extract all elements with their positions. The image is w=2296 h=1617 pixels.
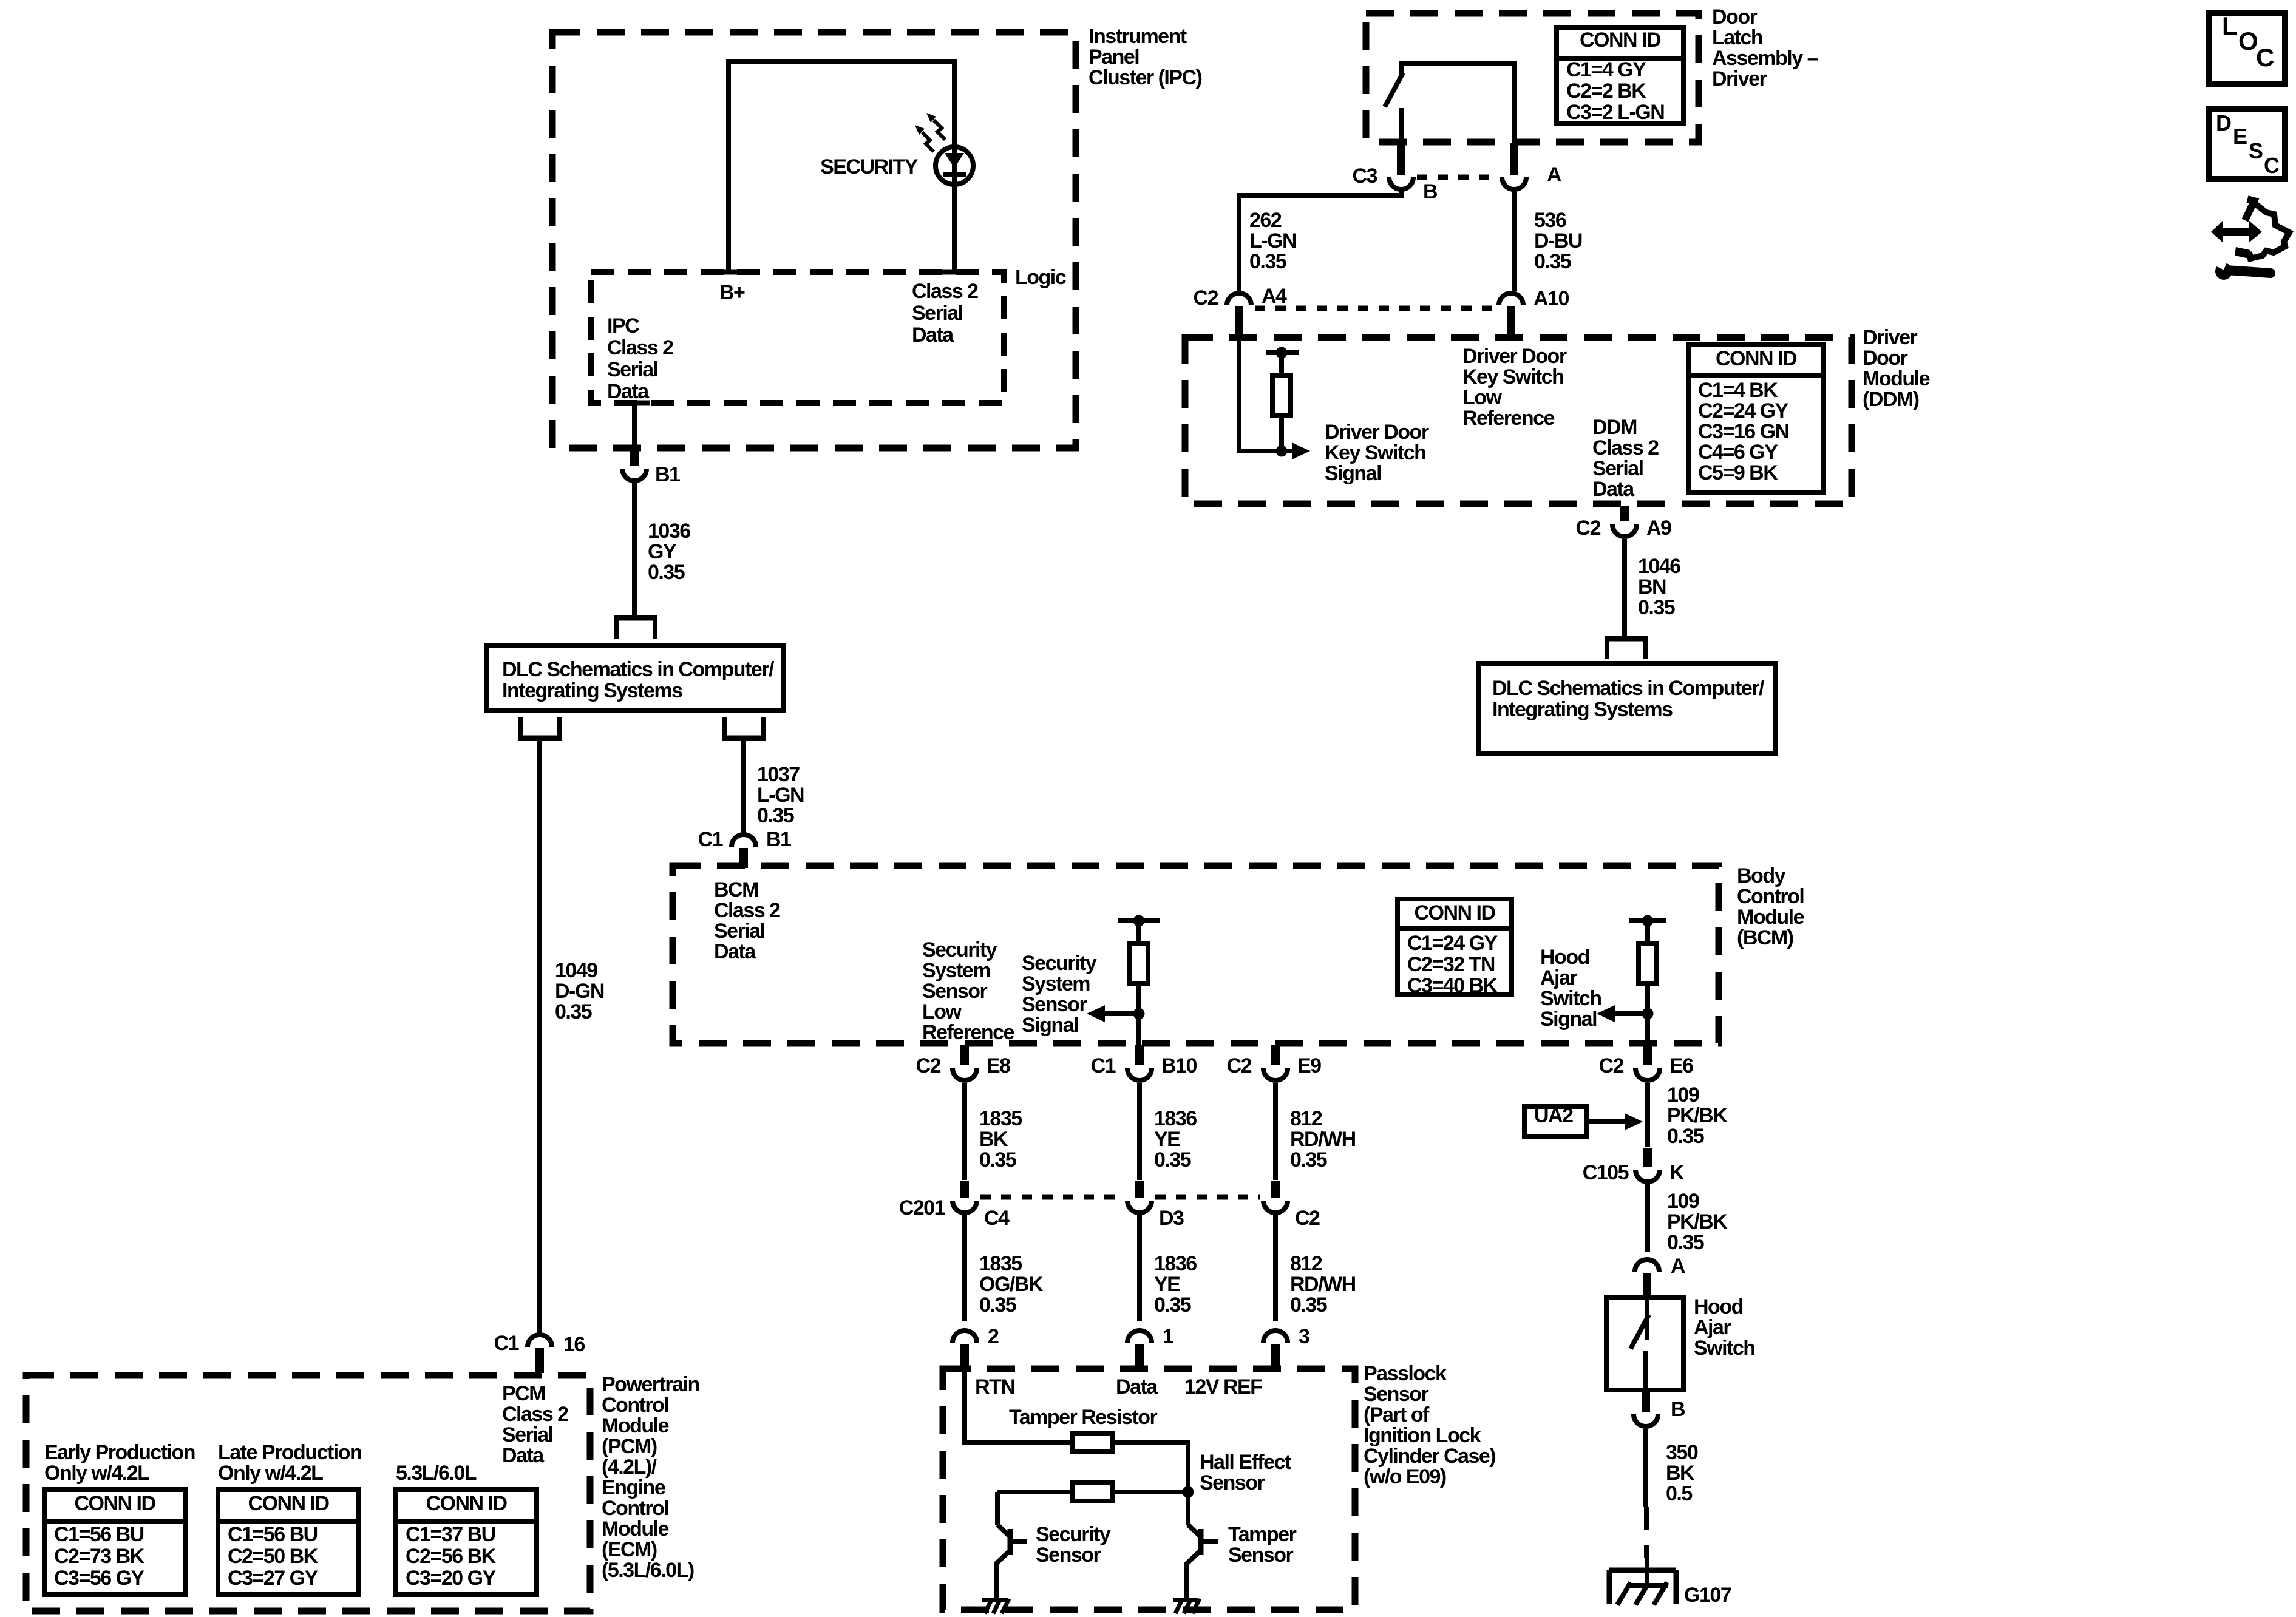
ground G107 <box>1609 1558 1731 1607</box>
connector C2 A4 at DDM <box>1194 285 1288 339</box>
svg-text:Reference: Reference <box>922 1021 1014 1044</box>
pin B+ on logic block <box>713 272 745 304</box>
svg-text:0.35: 0.35 <box>648 561 685 584</box>
svg-text:C2=32 TN: C2=32 TN <box>1407 953 1495 976</box>
BCM internal pull-up resistor for hood signal <box>1629 915 1666 1046</box>
security sensor transistor <box>996 1525 1027 1599</box>
svg-text:Sensor: Sensor <box>1036 1544 1101 1567</box>
wire 812 RD/WH 0.35 lower <box>1275 1215 1356 1321</box>
svg-text:0.35: 0.35 <box>1667 1125 1704 1148</box>
svg-text:Key Switch: Key Switch <box>1462 365 1563 388</box>
svg-text:1036: 1036 <box>648 520 690 543</box>
svg-text:Module: Module <box>602 1414 669 1437</box>
svg-text:RD/WH: RD/WH <box>1290 1128 1356 1151</box>
connector C1 B1 at BCM <box>698 828 792 868</box>
svg-text:Data: Data <box>1116 1375 1158 1398</box>
svg-text:C1: C1 <box>1091 1054 1116 1077</box>
svg-text:Tamper Resistor: Tamper Resistor <box>1009 1406 1158 1429</box>
svg-text:Engine: Engine <box>602 1476 665 1499</box>
svg-text:B10: B10 <box>1161 1054 1197 1077</box>
svg-text:Sensor: Sensor <box>1022 993 1087 1016</box>
wire RTN to tamper resistor <box>965 1371 1073 1443</box>
svg-text:0.35: 0.35 <box>979 1293 1016 1317</box>
DDM class 2 serial data label <box>1592 416 1659 501</box>
security sensor ground <box>982 1599 1009 1613</box>
svg-text:K: K <box>1669 1161 1685 1184</box>
IPC Class 2 Serial Data label <box>607 314 673 403</box>
svg-text:Data: Data <box>714 940 756 963</box>
connector C1 B10 at BCM <box>1091 1045 1197 1080</box>
DDM CONN ID table <box>1688 345 1824 493</box>
UA2 fuse callout box <box>1524 1104 1643 1137</box>
tamper resistor R1 <box>1073 1434 1113 1452</box>
svg-text:0.35: 0.35 <box>1290 1148 1327 1171</box>
svg-text:1836: 1836 <box>1154 1252 1197 1275</box>
svg-text:Class 2: Class 2 <box>607 336 673 359</box>
svg-text:G107: G107 <box>1684 1584 1731 1607</box>
off-page bracket from DLC right leg <box>722 717 766 738</box>
svg-text:O: O <box>2238 27 2257 55</box>
svg-text:IPC: IPC <box>607 314 639 337</box>
svg-text:C2=2 BK: C2=2 BK <box>1566 80 1646 103</box>
wire security sensor drop <box>995 1492 1000 1525</box>
svg-text:109: 109 <box>1667 1083 1699 1107</box>
wire 109 PK/BK 0.35 upper <box>1648 1083 1728 1148</box>
svg-text:Door: Door <box>1712 5 1758 29</box>
svg-text:C2: C2 <box>1295 1207 1320 1230</box>
wire security branch <box>997 1490 1073 1494</box>
connector C3 B at door latch <box>1353 143 1438 203</box>
DESC button <box>2209 109 2285 179</box>
off-page bracket to DLC (left) <box>614 618 657 639</box>
connector pin 2 at passlock sensor <box>953 1325 999 1371</box>
svg-text:E9: E9 <box>1297 1054 1321 1077</box>
off-page bracket to DLC (right) <box>1605 639 1648 659</box>
svg-text:Hall Effect: Hall Effect <box>1200 1451 1291 1474</box>
svg-text:DLC Schematics in Computer/: DLC Schematics in Computer/ <box>502 658 775 681</box>
svg-text:0.35: 0.35 <box>1667 1231 1704 1254</box>
svg-text:C2: C2 <box>1227 1054 1252 1077</box>
svg-text:C3=27 GY: C3=27 GY <box>228 1567 319 1590</box>
svg-text:C5=9 BK: C5=9 BK <box>1698 461 1778 484</box>
svg-text:0.35: 0.35 <box>1638 596 1675 619</box>
BCM hood ajar switch signal label <box>1540 946 1601 1031</box>
wire LED cathode to logic Class 2 <box>952 185 957 272</box>
svg-text:0.5: 0.5 <box>1666 1482 1692 1505</box>
svg-text:C3=16 GN: C3=16 GN <box>1698 420 1789 443</box>
late production label <box>218 1441 361 1485</box>
tamper sensor transistor <box>1187 1525 1218 1599</box>
svg-text:PK/BK: PK/BK <box>1667 1210 1728 1233</box>
DDM driver door key switch low reference label <box>1462 345 1567 430</box>
svg-text:(ECM): (ECM) <box>602 1538 657 1561</box>
svg-text:350: 350 <box>1666 1441 1698 1464</box>
svg-text:OG/BK: OG/BK <box>979 1273 1044 1296</box>
svg-text:0.35: 0.35 <box>1154 1293 1191 1317</box>
svg-text:A: A <box>1547 163 1561 186</box>
connector pin 1 at passlock sensor <box>1127 1325 1173 1371</box>
svg-text:C3=2 L-GN: C3=2 L-GN <box>1566 101 1664 124</box>
svg-text:Control: Control <box>602 1394 668 1417</box>
pin Class 2 Serial Data on logic block <box>912 272 978 347</box>
svg-text:262: 262 <box>1249 209 1282 232</box>
wire 1835 BK 0.35 <box>965 1083 1022 1180</box>
svg-text:L-GN: L-GN <box>757 784 804 807</box>
svg-text:B: B <box>1671 1398 1685 1421</box>
instrument panel cluster (IPC) module box <box>552 25 1202 448</box>
svg-text:D: D <box>2216 110 2231 135</box>
svg-text:Logic: Logic <box>1015 266 1066 289</box>
svg-text:C3=56 GY: C3=56 GY <box>54 1567 145 1590</box>
connector C2 E6 at BCM <box>1599 1045 1694 1080</box>
passlock sensor box <box>943 1362 1495 1610</box>
svg-text:Class 2: Class 2 <box>912 280 978 303</box>
svg-text:Serial: Serial <box>912 302 963 325</box>
svg-text:Control: Control <box>602 1497 668 1520</box>
svg-text:CONN ID: CONN ID <box>248 1492 329 1515</box>
svg-text:1046: 1046 <box>1638 555 1680 578</box>
svg-text:1037: 1037 <box>757 763 800 786</box>
svg-text:(PCM): (PCM) <box>602 1435 657 1458</box>
svg-text:0.35: 0.35 <box>1534 250 1571 273</box>
connector C201 D3 <box>1127 1181 1184 1230</box>
svg-text:D3: D3 <box>1159 1207 1184 1230</box>
svg-text:Sensor: Sensor <box>1364 1383 1429 1406</box>
svg-text:D-BU: D-BU <box>1534 229 1582 253</box>
tamper sensor label <box>1228 1523 1297 1567</box>
svg-text:E: E <box>2233 124 2247 149</box>
svg-text:C: C <box>2264 153 2280 178</box>
connector A at hood ajar switch <box>1635 1255 1685 1300</box>
svg-text:Body: Body <box>1737 864 1786 887</box>
svg-text:Passlock: Passlock <box>1364 1362 1447 1385</box>
BCM hood signal arrow <box>1597 1005 1654 1022</box>
svg-text:1: 1 <box>1163 1325 1173 1348</box>
junction node hall sensor <box>1183 1486 1194 1498</box>
svg-text:BCM: BCM <box>714 878 758 901</box>
svg-text:BK: BK <box>979 1128 1008 1151</box>
svg-text:C4: C4 <box>984 1207 1010 1230</box>
BCM security system sensor low reference label <box>922 938 1014 1044</box>
wire 1046 BN 0.35 <box>1625 539 1680 636</box>
BCM internal pull-up resistor for sensor signal <box>1118 915 1160 1046</box>
wire 1836 YE 0.35 lower <box>1140 1215 1197 1321</box>
12V REF terminal label <box>1184 1375 1262 1398</box>
svg-text:Security: Security <box>1022 952 1097 975</box>
wire 350 BK 0.5 <box>1646 1429 1698 1507</box>
tamper sensor ground <box>1173 1599 1200 1613</box>
adjust icon wrench <box>2215 260 2271 280</box>
svg-text:Sensor: Sensor <box>1228 1544 1294 1567</box>
svg-text:CONN ID: CONN ID <box>1414 901 1495 924</box>
svg-text:Hood: Hood <box>1540 946 1589 969</box>
svg-text:Control: Control <box>1737 885 1804 908</box>
adjust icon hand outline <box>2235 199 2289 259</box>
powertrain control module (PCM) box <box>26 1373 699 1611</box>
connector B1 at IPC <box>619 403 680 486</box>
svg-text:2: 2 <box>988 1325 999 1348</box>
inline dashed wire B to A <box>1417 175 1498 180</box>
svg-text:812: 812 <box>1290 1252 1322 1275</box>
connector C1 16 at PCM <box>494 1332 585 1373</box>
door latch key switch <box>1385 63 1514 142</box>
svg-text:YE: YE <box>1154 1128 1180 1151</box>
hood ajar switch box <box>1606 1295 1755 1390</box>
svg-text:Class 2: Class 2 <box>1592 436 1659 459</box>
svg-text:D-GN: D-GN <box>555 980 604 1003</box>
svg-text:S: S <box>2249 138 2263 163</box>
svg-text:E8: E8 <box>987 1054 1010 1077</box>
wire 536 D-BU 0.35 <box>1514 191 1582 291</box>
Data terminal label <box>1116 1375 1158 1398</box>
svg-text:B: B <box>1423 180 1438 203</box>
connector C2 A9 at DDM <box>1576 506 1672 540</box>
svg-text:5.3L/6.0L: 5.3L/6.0L <box>396 1462 477 1485</box>
svg-text:C2=24 GY: C2=24 GY <box>1698 399 1789 422</box>
BCM Class 2 Serial Data label <box>714 878 780 963</box>
svg-text:(4.2L)/: (4.2L)/ <box>602 1456 657 1479</box>
svg-text:0.35: 0.35 <box>979 1148 1016 1171</box>
wire tamper resistor to hall sensor node <box>1113 1443 1188 1486</box>
svg-text:(Part of: (Part of <box>1364 1403 1430 1426</box>
door latch assembly box <box>1366 5 1818 142</box>
svg-text:Serial: Serial <box>1592 457 1643 480</box>
svg-text:(BCM): (BCM) <box>1737 926 1793 949</box>
svg-text:L-GN: L-GN <box>1249 229 1296 253</box>
svg-text:Panel: Panel <box>1089 46 1139 69</box>
svg-text:Serial: Serial <box>714 920 765 943</box>
svg-text:Cylinder Case): Cylinder Case) <box>1364 1445 1495 1468</box>
connector C201 C2 <box>1263 1181 1320 1230</box>
svg-text:E6: E6 <box>1669 1054 1693 1077</box>
svg-text:Sensor: Sensor <box>922 980 988 1003</box>
LOC button <box>2209 12 2285 84</box>
svg-text:Ignition Lock: Ignition Lock <box>1364 1424 1481 1447</box>
svg-text:C3=40 BK: C3=40 BK <box>1407 974 1498 997</box>
svg-text:Driver Door: Driver Door <box>1462 345 1567 368</box>
svg-text:A: A <box>1671 1255 1685 1278</box>
DDM key switch signal wire and arrow <box>1239 337 1429 485</box>
svg-text:C1: C1 <box>698 828 723 851</box>
svg-text:Only w/4.2L: Only w/4.2L <box>218 1462 323 1485</box>
svg-text:1836: 1836 <box>1154 1107 1197 1130</box>
wire 812 RD/WH 0.35 <box>1275 1083 1356 1180</box>
svg-text:0.35: 0.35 <box>1249 250 1286 273</box>
svg-text:109: 109 <box>1667 1190 1699 1213</box>
svg-text:B+: B+ <box>719 281 745 304</box>
adjust icon double arrow <box>2211 220 2262 243</box>
svg-text:Assembly –: Assembly – <box>1712 47 1818 70</box>
svg-text:(5.3L/6.0L): (5.3L/6.0L) <box>602 1559 694 1582</box>
svg-text:C: C <box>2256 43 2274 72</box>
svg-text:PK/BK: PK/BK <box>1667 1104 1728 1127</box>
svg-text:Key Switch: Key Switch <box>1325 441 1425 464</box>
svg-text:Ajar: Ajar <box>1540 966 1577 989</box>
svg-text:Class 2: Class 2 <box>714 899 780 922</box>
svg-text:BN: BN <box>1638 575 1666 598</box>
svg-text:3: 3 <box>1299 1325 1309 1348</box>
connector A10 at DDM <box>1499 287 1569 339</box>
connector C2 E9 at BCM <box>1227 1045 1322 1080</box>
svg-text:A9: A9 <box>1646 517 1671 540</box>
svg-text:Data: Data <box>1592 478 1635 501</box>
svg-text:YE: YE <box>1154 1273 1180 1296</box>
svg-text:16: 16 <box>563 1333 585 1356</box>
svg-text:0.35: 0.35 <box>1290 1293 1327 1317</box>
svg-text:Security: Security <box>922 938 997 961</box>
svg-text:C2: C2 <box>1194 286 1218 310</box>
wire 1835 OG/BK 0.35 <box>965 1215 1044 1321</box>
IPC logic block box <box>591 266 1066 403</box>
svg-text:Integrating Systems: Integrating Systems <box>1492 698 1673 721</box>
svg-text:C3: C3 <box>1353 164 1377 188</box>
svg-text:C1: C1 <box>494 1332 519 1355</box>
dashed ground wire segment <box>1644 1507 1649 1558</box>
svg-text:Sensor: Sensor <box>1200 1471 1265 1494</box>
svg-text:C201: C201 <box>899 1196 945 1219</box>
svg-text:C1=4 BK: C1=4 BK <box>1698 379 1778 402</box>
hood ajar switch contacts <box>1631 1298 1649 1390</box>
svg-text:Door: Door <box>1863 347 1908 370</box>
svg-text:A4: A4 <box>1262 285 1287 308</box>
svg-text:0.35: 0.35 <box>1154 1148 1191 1171</box>
security sensor label <box>1036 1523 1111 1567</box>
svg-text:Instrument: Instrument <box>1089 25 1187 48</box>
wire B+ to LED anode <box>729 62 954 272</box>
svg-text:Data: Data <box>607 380 650 403</box>
svg-text:CONN ID: CONN ID <box>1580 29 1661 52</box>
LED indicator SECURITY <box>820 113 973 185</box>
svg-text:C105: C105 <box>1583 1161 1629 1184</box>
svg-text:Reference: Reference <box>1462 407 1555 430</box>
svg-text:GY: GY <box>648 540 677 563</box>
connector B at hood ajar switch <box>1634 1391 1685 1426</box>
svg-text:Hood: Hood <box>1694 1295 1743 1318</box>
security branch resistor R2 <box>1073 1483 1113 1501</box>
svg-text:Ajar: Ajar <box>1694 1316 1731 1339</box>
svg-text:Integrating Systems: Integrating Systems <box>502 679 682 702</box>
early production label <box>44 1441 195 1485</box>
svg-text:System: System <box>922 959 990 982</box>
svg-text:Switch: Switch <box>1540 987 1601 1010</box>
svg-text:B1: B1 <box>766 828 791 851</box>
svg-text:BK: BK <box>1666 1462 1695 1485</box>
wire 1049 D-GN 0.35 <box>540 741 604 1333</box>
svg-text:1835: 1835 <box>979 1107 1022 1130</box>
hall effect sensor label <box>1200 1451 1291 1494</box>
svg-text:System: System <box>1022 972 1090 995</box>
svg-text:DLC Schematics in Computer/: DLC Schematics in Computer/ <box>1492 677 1765 700</box>
svg-text:Cluster (IPC): Cluster (IPC) <box>1089 66 1202 89</box>
svg-text:PCM: PCM <box>502 1382 545 1405</box>
svg-text:CONN ID: CONN ID <box>1716 347 1797 370</box>
svg-text:Module: Module <box>1737 906 1804 929</box>
svg-text:C2=50 BK: C2=50 BK <box>228 1545 319 1568</box>
svg-text:C1=24 GY: C1=24 GY <box>1407 932 1498 955</box>
svg-text:CONN ID: CONN ID <box>74 1492 155 1515</box>
svg-text:C2=56 BK: C2=56 BK <box>406 1545 497 1568</box>
wire R2 to node <box>1113 1490 1183 1494</box>
svg-text:Module: Module <box>602 1517 669 1541</box>
wire 1836 YE 0.35 <box>1140 1083 1197 1180</box>
BCM sensor signal arrow <box>1087 1005 1145 1022</box>
svg-text:C3=20 GY: C3=20 GY <box>406 1567 497 1590</box>
svg-text:A10: A10 <box>1533 287 1569 310</box>
svg-text:Low: Low <box>922 1000 962 1023</box>
svg-text:Signal: Signal <box>1540 1008 1597 1031</box>
svg-text:Module: Module <box>1863 367 1930 390</box>
body control module (BCM) box <box>673 864 1804 1043</box>
connector C105 K <box>1583 1148 1685 1184</box>
svg-text:Serial: Serial <box>502 1423 553 1446</box>
svg-text:Data: Data <box>912 324 954 347</box>
connector C2 E8 at BCM <box>916 1045 1011 1080</box>
wire 1037 L-GN 0.35 <box>744 741 804 833</box>
door latch CONN ID table <box>1557 27 1683 124</box>
svg-text:Latch: Latch <box>1712 26 1762 49</box>
BCM security system sensor signal label <box>1022 952 1097 1037</box>
svg-text:(DDM): (DDM) <box>1863 388 1919 411</box>
RTN terminal label <box>975 1375 1014 1398</box>
off-page bracket from DLC left leg <box>518 717 562 738</box>
svg-text:RD/WH: RD/WH <box>1290 1273 1356 1296</box>
driver door module (DDM) box <box>1185 326 1930 504</box>
svg-text:B1: B1 <box>655 463 680 486</box>
svg-text:Only w/4.2L: Only w/4.2L <box>44 1462 149 1485</box>
DLC schematics reference box (left) <box>487 645 784 710</box>
svg-text:C2: C2 <box>1599 1054 1624 1077</box>
svg-text:UA2: UA2 <box>1534 1104 1573 1127</box>
svg-text:Signal: Signal <box>1022 1014 1078 1037</box>
svg-text:Tamper: Tamper <box>1228 1523 1297 1546</box>
svg-text:1049: 1049 <box>555 959 597 982</box>
svg-text:DDM: DDM <box>1592 416 1637 439</box>
connector C201 C4 <box>899 1181 1010 1230</box>
connector A at door latch <box>1502 143 1561 189</box>
svg-text:(w/o E09): (w/o E09) <box>1364 1465 1446 1488</box>
tamper resistor label <box>1009 1406 1158 1429</box>
svg-text:L: L <box>2222 12 2237 40</box>
svg-text:CONN ID: CONN ID <box>426 1492 507 1515</box>
PCM CONN ID table 5.3L/6.0L <box>396 1490 537 1595</box>
svg-text:12V REF: 12V REF <box>1184 1375 1262 1398</box>
svg-text:Switch: Switch <box>1694 1337 1755 1360</box>
svg-text:1835: 1835 <box>979 1252 1022 1275</box>
svg-text:C2: C2 <box>1576 517 1601 540</box>
svg-text:Driver Door: Driver Door <box>1325 421 1429 444</box>
DLC schematics reference box (right) <box>1478 663 1775 754</box>
svg-text:C1=56 BU: C1=56 BU <box>228 1523 318 1546</box>
DDM internal resistor <box>1266 347 1299 452</box>
5.3L/6.0L label <box>396 1462 477 1485</box>
wire 1036 GY 0.35 <box>634 481 690 615</box>
svg-text:SECURITY: SECURITY <box>820 155 919 178</box>
svg-text:Class 2: Class 2 <box>502 1403 568 1426</box>
svg-text:812: 812 <box>1290 1107 1322 1130</box>
svg-text:Early Production: Early Production <box>44 1441 195 1464</box>
inline dashed wire C201 <box>980 1195 1260 1200</box>
svg-text:Security: Security <box>1036 1523 1111 1546</box>
svg-text:0.35: 0.35 <box>757 804 794 827</box>
wire node down to tamper sensor <box>1186 1492 1190 1525</box>
PCM class 2 serial data label <box>502 1382 568 1467</box>
connector pin 3 at passlock sensor <box>1263 1325 1309 1371</box>
PCM CONN ID table late <box>218 1490 359 1595</box>
wire 109 PK/BK 0.35 lower <box>1648 1184 1728 1254</box>
inline dashed wire A4 to A10 <box>1255 306 1495 311</box>
svg-text:0.35: 0.35 <box>555 1000 592 1023</box>
PCM CONN ID table early <box>44 1490 185 1595</box>
